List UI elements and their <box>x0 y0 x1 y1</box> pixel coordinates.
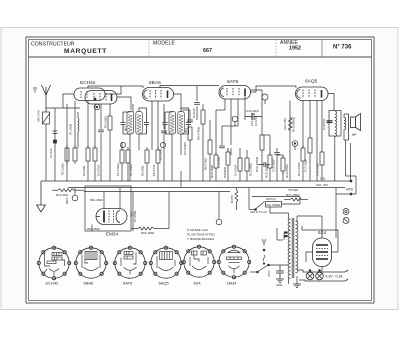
resistor R4 <box>86 145 90 164</box>
resistor R27 <box>238 148 242 181</box>
socket ECH42 <box>37 246 71 280</box>
capacitor C8 <box>219 146 225 148</box>
resistor R25 <box>284 198 308 201</box>
resistor R5 <box>93 145 97 164</box>
svg-text:C12.5nF: C12.5nF <box>217 156 221 168</box>
capacitor C3 padder <box>120 146 124 167</box>
resistor R9 <box>156 147 160 166</box>
svg-text:C13.10nF: C13.10nF <box>246 109 259 113</box>
tube4 pin wires <box>303 101 317 182</box>
svg-text:CL.0500: CL.0500 <box>133 210 137 222</box>
mains switch <box>250 264 289 273</box>
svg-text:R12.2MΩ: R12.2MΩ <box>249 162 253 176</box>
trimmer C1 <box>53 131 58 143</box>
header divider 1 <box>148 40 150 58</box>
legend symbol dot <box>263 249 265 251</box>
svg-text:C4.47nF: C4.47nF <box>97 164 101 176</box>
resistor R24 vertical zigzag <box>235 188 238 211</box>
svg-text:R17.270Ω: R17.270Ω <box>297 162 301 176</box>
svg-text:C14.5nF: C14.5nF <box>234 164 238 176</box>
tube EM34 <box>96 209 127 225</box>
svg-text:R14.470kΩ: R14.470kΩ <box>255 156 259 172</box>
svg-text:R17.15kΩ: R17.15kΩ <box>286 193 300 197</box>
svg-text:C15.20nF: C15.20nF <box>272 159 276 172</box>
svg-text:CL.5030: CL.5030 <box>159 148 163 160</box>
resistor R29 <box>320 101 324 182</box>
socket 6AT6 <box>113 246 147 278</box>
svg-text:R3.68Ω: R3.68Ω <box>82 165 86 176</box>
capacitor C10 <box>274 153 280 155</box>
EM34 magic eye box <box>85 186 131 231</box>
tube ECH42 <box>74 88 117 104</box>
osc coil L2 <box>77 112 80 148</box>
earth terminal <box>33 88 37 92</box>
svg-text:HPS: HPS <box>346 188 354 192</box>
capacitor C12 <box>131 211 133 217</box>
socket 6AQ5 <box>149 246 183 278</box>
svg-text:R13.16Ω: R13.16Ω <box>56 193 69 197</box>
svg-text:EM34: EM34 <box>106 232 118 237</box>
svg-text:C14.50: C14.50 <box>254 116 258 126</box>
capacitor C7 <box>194 103 200 105</box>
svg-text:R6.68Ω: R6.68Ω <box>141 165 145 176</box>
resistor R14 volume pot <box>226 149 230 168</box>
wire <box>122 142 128 181</box>
T2 primary trimmer <box>163 112 168 134</box>
wire <box>222 126 238 181</box>
svg-text:C18.5nF: C18.5nF <box>322 118 326 130</box>
resistor R11 <box>201 110 205 124</box>
main HT rail <box>41 180 351 182</box>
node marker M <box>262 94 268 104</box>
IF transformer T2 primary <box>169 112 176 135</box>
mains capacitor <box>276 265 284 282</box>
svg-text:C1.5nF: C1.5nF <box>49 148 53 158</box>
svg-text:ECH42: ECH42 <box>80 80 96 86</box>
wire <box>165 108 189 188</box>
node marker C <box>160 142 165 147</box>
svg-text:R6L.2MΩ: R6L.2MΩ <box>87 227 101 231</box>
variable capacitor CV1 <box>42 112 50 124</box>
svg-text:R6L.2MΩ: R6L.2MΩ <box>90 198 104 202</box>
tone switch box <box>249 188 300 210</box>
pilot lamp L2 <box>316 270 324 280</box>
heater wires <box>297 270 348 281</box>
svg-text:220V: 220V <box>282 233 286 240</box>
svg-text:R15.1MΩ: R15.1MΩ <box>265 164 269 178</box>
svg-text:1952: 1952 <box>289 46 301 52</box>
svg-text:C9.100pF: C9.100pF <box>183 142 187 155</box>
svg-text:C10.25: C10.25 <box>192 108 196 118</box>
right side B+ wires <box>336 140 356 238</box>
svg-text:R16.500kΩ: R16.500kΩ <box>292 116 296 132</box>
svg-text:6AQ5: 6AQ5 <box>305 79 318 85</box>
svg-text:6AT6: 6AT6 <box>123 281 133 286</box>
AF rail <box>84 191 230 193</box>
svg-text:MODELE: MODELE <box>153 41 175 47</box>
socket 2M34 <box>217 245 251 279</box>
socket 6BA6 <box>74 246 108 278</box>
svg-text:N° 736: N° 736 <box>333 45 352 51</box>
svg-text:S.B.: S.B. <box>320 177 326 181</box>
svg-text:P. MASSE CHA: P. MASSE CHA <box>187 228 208 232</box>
antenna <box>42 85 51 112</box>
svg-text:MIL.7000Ω: MIL.7000Ω <box>267 203 281 207</box>
svg-text:R2.22kΩ: R2.22kΩ <box>61 162 65 175</box>
capacitor C11 <box>327 121 333 123</box>
svg-text:MF2: MF2 <box>184 127 188 133</box>
svg-text:667: 667 <box>203 48 212 54</box>
schematic outer frame <box>26 37 374 303</box>
resistor R26 zigzag in grid line <box>289 117 293 131</box>
capacitor C2 <box>98 130 104 132</box>
node marker F <box>216 192 222 225</box>
svg-text:6.3V - 0.3A: 6.3V - 0.3A <box>326 275 344 279</box>
6X4 wires <box>302 226 338 272</box>
svg-text:6X4: 6X4 <box>194 281 202 286</box>
svg-text:ECH42: ECH42 <box>46 281 60 286</box>
wire <box>92 188 133 232</box>
resistor R8 <box>145 147 149 166</box>
wire <box>183 86 211 181</box>
resistor R19 <box>308 138 312 153</box>
resistor R17 <box>281 155 285 174</box>
svg-text:CONSTRUCTEUR: CONSTRUCTEUR <box>31 42 75 48</box>
resistor R22 zigzag <box>131 192 169 231</box>
resistor R12 <box>208 140 212 154</box>
capacitor C5 <box>161 131 167 133</box>
resistor R13 <box>214 152 218 171</box>
svg-text:R16.270Ω: R16.270Ω <box>285 164 289 178</box>
svg-text:PL MOTEUR ATTED: PL MOTEUR ATTED <box>187 233 216 237</box>
svg-text:CPX(1): CPX(1) <box>266 197 276 201</box>
socket 6X4 <box>182 245 216 277</box>
svg-text:C17.25μF: C17.25μF <box>304 159 308 172</box>
output transformer TR1 <box>329 111 341 182</box>
tube1 cathode wires <box>88 101 110 182</box>
resistor R18 <box>301 145 305 164</box>
legend symbol squiggle <box>263 255 265 264</box>
tube 6X4 <box>313 238 332 267</box>
svg-text:2M34: 2M34 <box>227 281 238 286</box>
node marker B2 <box>120 142 125 147</box>
T1 secondary trimmer <box>144 112 149 134</box>
wire <box>262 101 290 182</box>
resistor R23 zigzag <box>52 189 84 192</box>
resistor R15 <box>260 135 264 150</box>
tube 6BA6 <box>143 88 174 102</box>
resistor R16 <box>268 152 272 171</box>
svg-text:220 & TC μF: 220 & TC μF <box>250 210 267 214</box>
resistor R28 <box>245 150 249 181</box>
top grid wires <box>88 86 334 111</box>
header divider 3 <box>321 40 323 58</box>
resistor R2 <box>65 145 69 164</box>
svg-text:R47Ω: R47Ω <box>230 194 234 203</box>
tube 6AQ5 <box>296 87 329 101</box>
TR1 secondary coil <box>344 114 349 140</box>
lamp marker B <box>343 218 349 224</box>
speaker HP <box>349 114 361 141</box>
capacitor C9 <box>245 113 262 120</box>
svg-text:P.500kΩ: P.500kΩ <box>223 166 227 178</box>
power transformer TR2 <box>288 218 298 278</box>
svg-text:A16.78Ω: A16.78Ω <box>283 117 287 130</box>
resistor R7 <box>126 147 130 166</box>
T2 secondary trimmer <box>186 112 191 134</box>
svg-text:MF1: MF1 <box>124 125 128 131</box>
lamp marker A <box>343 209 349 215</box>
legend symbol antenna small <box>262 239 266 246</box>
svg-text:R5.10kΩ: R5.10kΩ <box>129 163 133 176</box>
header separator line <box>29 56 372 58</box>
wire <box>277 228 283 240</box>
svg-text:HP: HP <box>352 133 356 137</box>
svg-text:R4.22kΩ: R4.22kΩ <box>104 115 108 128</box>
svg-text:T. BORNE BRAKES: T. BORNE BRAKES <box>187 237 214 241</box>
svg-text:R1.1MΩ: R1.1MΩ <box>69 123 73 135</box>
node marker T <box>232 116 238 126</box>
svg-text:R6C.2MΩ: R6C.2MΩ <box>141 231 155 235</box>
svg-text:1500: 1500 <box>276 283 283 287</box>
svg-text:C8.47nF: C8.47nF <box>152 164 156 176</box>
svg-text:SOL.700: SOL.700 <box>316 183 328 187</box>
T1 secondary <box>136 112 143 135</box>
tuning gang section wires <box>46 94 80 181</box>
svg-text:R8.470kΩ: R8.470kΩ <box>197 126 201 140</box>
svg-text:C5.470pF: C5.470pF <box>116 163 120 176</box>
svg-text:6BA6: 6BA6 <box>149 80 161 86</box>
svg-text:C19.50μF: C19.50μF <box>316 163 320 176</box>
header divider 2 <box>275 40 277 58</box>
ground under transformer <box>293 282 301 287</box>
svg-text:6X4: 6X4 <box>318 230 327 235</box>
ground chassis <box>37 181 46 212</box>
capacitor C6 <box>187 120 193 122</box>
tube3 pin wires <box>216 96 245 181</box>
svg-text:TP.19Ω: TP.19Ω <box>288 188 299 192</box>
TR2 wires <box>270 207 322 284</box>
svg-text:47nF: 47nF <box>267 270 271 277</box>
resistor R10 <box>188 127 192 140</box>
resistor R3 <box>73 145 77 164</box>
svg-text:R10.2MΩ: R10.2MΩ <box>210 164 214 178</box>
T2 secondary <box>178 112 185 135</box>
svg-text:6AT6: 6AT6 <box>227 79 238 85</box>
svg-text:R9.47kΩ: R9.47kΩ <box>204 157 208 170</box>
svg-text:MARQUETT: MARQUETT <box>64 48 107 55</box>
node marker B1 <box>94 104 100 110</box>
AVC rail <box>68 187 345 189</box>
svg-text:6AQ5: 6AQ5 <box>159 281 170 286</box>
pilot lamp L1 <box>306 270 314 280</box>
svg-text:6BA6: 6BA6 <box>84 281 95 286</box>
node marker E <box>72 188 78 201</box>
svg-text:ANT.240: ANT.240 <box>37 110 41 122</box>
IF transformer T1 primary <box>127 112 134 135</box>
svg-text:MES: MES <box>65 197 69 204</box>
wire <box>147 101 164 181</box>
T1 primary trimmer <box>121 112 126 134</box>
capacitor C13 horizontal <box>258 162 270 167</box>
node marker G <box>292 141 298 150</box>
terminal block <box>284 232 288 238</box>
wire <box>123 104 147 181</box>
tube 6AT6 <box>219 86 251 100</box>
resistor R6 <box>108 116 112 130</box>
